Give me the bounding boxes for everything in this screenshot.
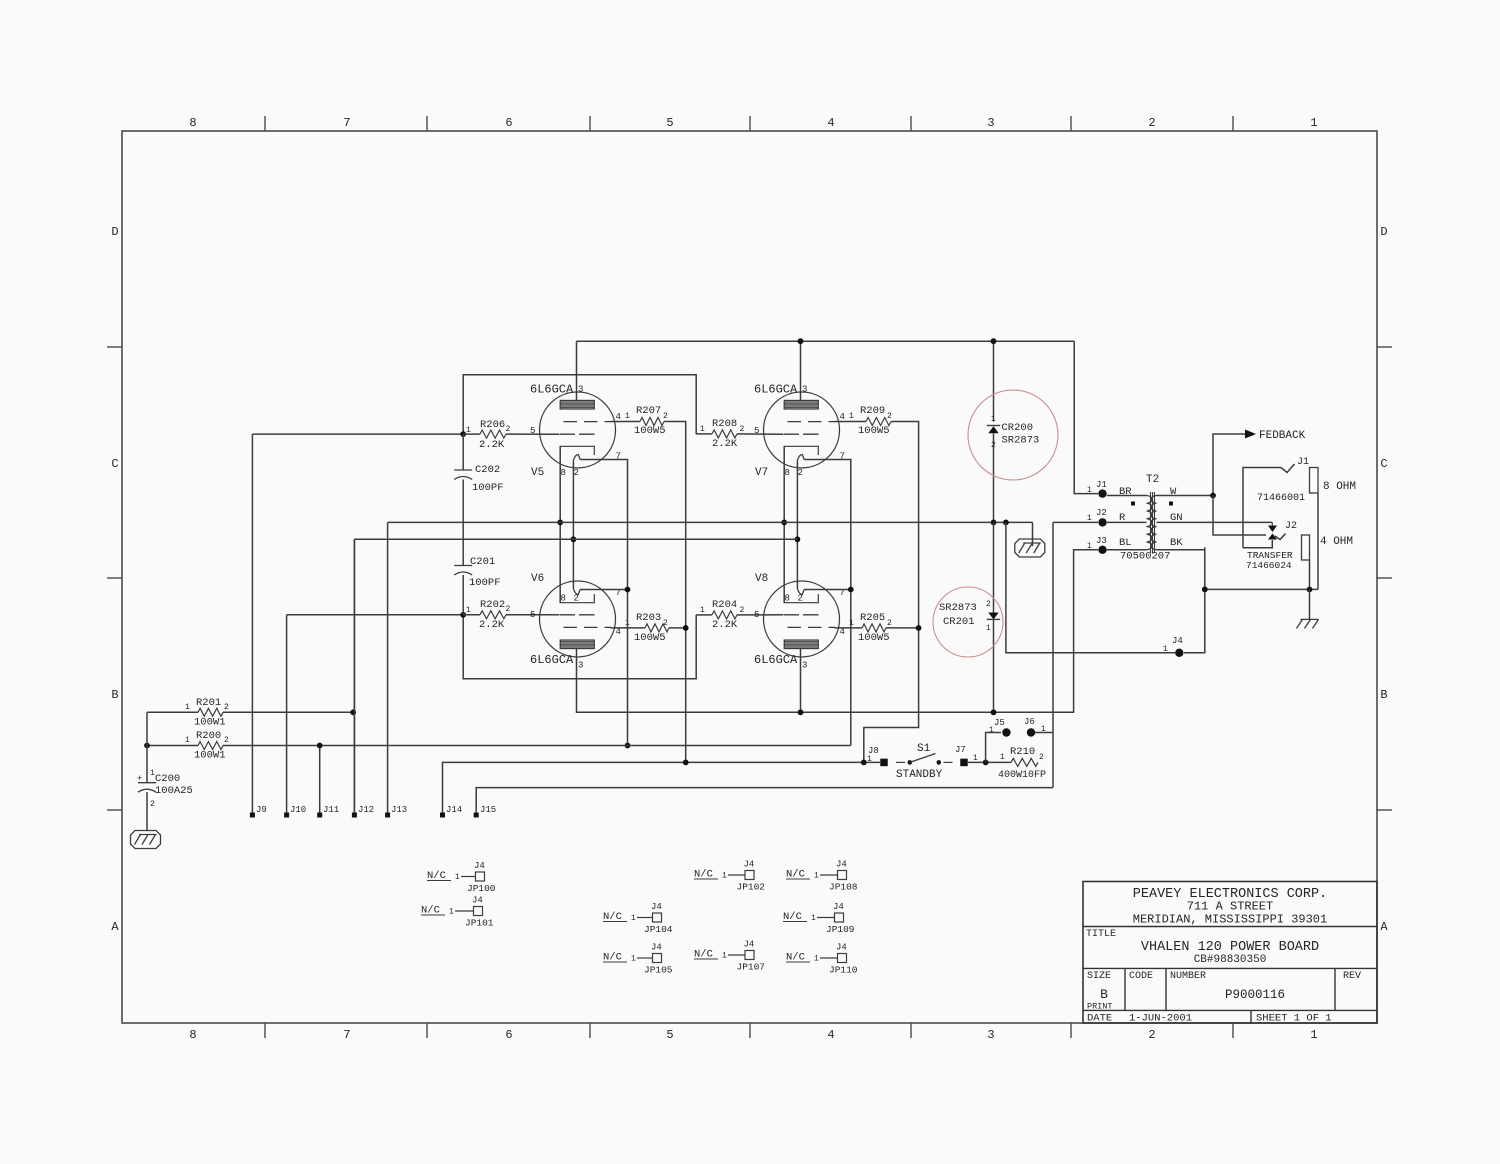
svg-text:1: 1: [814, 872, 819, 881]
connector J1 (T2 primary BR): [1087, 480, 1107, 498]
node J4 branch on bus: [1003, 520, 1009, 526]
tube V7 (6L6GCA): [764, 392, 840, 468]
svg-text:J9: J9: [256, 805, 267, 815]
svg-text:1-JUN-2001: 1-JUN-2001: [1129, 1013, 1192, 1025]
wire V8 pin7 cathode: [804, 589, 851, 591]
resistor R208: [696, 418, 744, 450]
wire J3 to bottom bus: [1074, 550, 1098, 713]
svg-text:J4: J4: [744, 940, 755, 950]
jumper JP101: [421, 896, 494, 929]
switch S1 (STANDBY): [896, 743, 953, 781]
wire V7 pin7 cathode: [804, 460, 851, 746]
svg-text:4: 4: [616, 627, 621, 637]
svg-text:R203: R203: [636, 612, 661, 624]
svg-text:T2: T2: [1146, 474, 1159, 486]
svg-text:2.2K: 2.2K: [712, 619, 738, 631]
red circle CR201: [933, 587, 1003, 657]
node CR201 to bottom bus: [991, 709, 997, 715]
svg-text:C: C: [1380, 457, 1387, 471]
connector J4: [1163, 636, 1184, 657]
node V6 pin7 junction: [625, 587, 631, 593]
svg-text:J1: J1: [1096, 480, 1107, 490]
wire R204 feed (under V6): [463, 615, 696, 679]
connector J5: [989, 718, 1011, 737]
svg-text:4: 4: [840, 412, 845, 422]
wire input to R206 node: [252, 433, 463, 435]
wire V7 plate to bus: [800, 341, 802, 400]
svg-text:SR2873: SR2873: [1002, 435, 1040, 447]
svg-text:R206: R206: [480, 419, 505, 431]
wire J2 corner: [1053, 521, 1098, 523]
svg-text:J2: J2: [1285, 521, 1297, 532]
node V8 pin7 junction: [848, 587, 854, 593]
wire R202 to V6 pin5: [506, 614, 559, 616]
wire R208 feed (over V5): [463, 375, 696, 434]
label V7: [754, 383, 845, 480]
svg-text:5: 5: [530, 426, 535, 436]
node CR200 to bus: [991, 520, 997, 526]
svg-text:GN: GN: [1170, 512, 1183, 524]
svg-text:VHALEN 120 POWER BOARD: VHALEN 120 POWER BOARD: [1141, 940, 1319, 955]
svg-text:J15: J15: [480, 805, 496, 815]
jumper JP104: [603, 902, 673, 935]
svg-text:J4: J4: [472, 896, 483, 906]
svg-text:3: 3: [578, 385, 583, 395]
svg-text:R202: R202: [480, 599, 505, 611]
wire screen bus horizontal: [388, 521, 1033, 523]
node V8 plate junction: [798, 709, 804, 715]
svg-text:100W5: 100W5: [634, 425, 666, 437]
svg-text:D: D: [1380, 225, 1387, 239]
svg-text:A: A: [1380, 920, 1388, 934]
tube V8 (6L6GCA): [764, 581, 840, 657]
svg-text:JP109: JP109: [826, 924, 855, 935]
svg-text:3: 3: [802, 385, 807, 395]
svg-text:SR2873: SR2873: [939, 602, 977, 614]
svg-text:J13: J13: [391, 805, 407, 815]
node cathode to R200 rail: [625, 743, 631, 749]
svg-text:R209: R209: [860, 405, 885, 417]
node feedback junction: [1210, 493, 1216, 499]
capacitor C200 (polarized): [137, 769, 193, 831]
connector J10: [284, 615, 306, 818]
node pin8 bus junction: [557, 520, 563, 526]
wire ground drop: [1032, 522, 1034, 546]
wire BK ground rail: [1205, 588, 1318, 590]
svg-text:J11: J11: [323, 805, 339, 815]
svg-text:R: R: [1119, 512, 1126, 524]
frame tick marks: [107, 116, 1392, 1038]
resistor R203: [611, 612, 670, 644]
svg-text:8: 8: [785, 594, 790, 604]
jumper JP109: [783, 902, 855, 935]
svg-text:DATE: DATE: [1087, 1013, 1112, 1025]
svg-text:R200: R200: [196, 730, 221, 742]
output jack J2 (4 ohm transfer): [1243, 521, 1353, 589]
svg-text:R204: R204: [712, 599, 737, 611]
connector J12: [352, 539, 374, 817]
svg-text:JP104: JP104: [644, 924, 673, 935]
svg-text:CR201: CR201: [943, 616, 975, 628]
svg-text:SHEET 1 OF 1: SHEET 1 OF 1: [1256, 1013, 1332, 1025]
svg-text:1: 1: [185, 736, 190, 745]
capacitor C201: [454, 522, 500, 614]
svg-text:REV: REV: [1343, 971, 1361, 982]
svg-text:8: 8: [189, 116, 196, 130]
frame zone labels: [111, 116, 1388, 1042]
svg-text:4: 4: [827, 116, 834, 130]
wire R207 pin2 drop: [664, 422, 686, 763]
resistor R200: [147, 730, 851, 762]
svg-text:1: 1: [1310, 1028, 1317, 1042]
svg-text:6: 6: [505, 116, 512, 130]
svg-text:1: 1: [1310, 116, 1317, 130]
wire W branch to transfer: [1213, 496, 1266, 536]
svg-text:A: A: [111, 920, 119, 934]
wire BK to J4: [1184, 547, 1205, 653]
svg-text:1: 1: [867, 755, 872, 764]
svg-text:J3: J3: [1096, 536, 1107, 546]
svg-text:J2: J2: [1096, 508, 1107, 518]
jumper JP102: [694, 860, 765, 893]
svg-text:100W5: 100W5: [634, 632, 666, 644]
svg-text:1: 1: [989, 726, 994, 735]
wire R208 to V7 pin5: [737, 433, 783, 435]
svg-text:R205: R205: [860, 612, 885, 624]
wire input to R202 node: [287, 614, 464, 616]
svg-text:1: 1: [986, 624, 991, 633]
node J5 branch junction: [983, 760, 989, 766]
svg-text:3: 3: [987, 1028, 994, 1042]
svg-text:2.2K: 2.2K: [712, 438, 738, 450]
connector J15: [474, 788, 1053, 818]
svg-text:R201: R201: [196, 697, 221, 709]
svg-text:S1: S1: [917, 743, 931, 755]
node pin2 bus end right: [795, 536, 801, 542]
wire R209 pin2 drop: [864, 422, 919, 763]
tube V6 (6L6GCA): [540, 581, 616, 657]
svg-text:1: 1: [814, 955, 819, 964]
svg-text:D: D: [111, 225, 118, 239]
wire W to feedback node: [1213, 434, 1245, 496]
wire V5 pin7 cathode: [580, 460, 627, 746]
resistor R207: [611, 405, 669, 437]
ground (chassis) near bus: [1015, 539, 1045, 557]
svg-text:6L6GCA: 6L6GCA: [530, 383, 574, 397]
wire V6 plate drop: [577, 649, 1075, 713]
svg-text:2: 2: [798, 594, 803, 604]
svg-text:2: 2: [663, 619, 668, 628]
svg-text:100W5: 100W5: [858, 425, 890, 437]
svg-text:BR: BR: [1119, 486, 1132, 498]
wire J5 branch: [986, 733, 1001, 763]
svg-text:JP108: JP108: [829, 882, 858, 893]
svg-text:2: 2: [150, 800, 155, 809]
svg-text:2: 2: [798, 468, 803, 478]
svg-text:400W10FP: 400W10FP: [998, 770, 1046, 781]
node R202 input junction: [460, 612, 466, 618]
wire R204 to V8 pin5: [737, 614, 783, 616]
svg-text:2: 2: [740, 425, 745, 434]
wire R203 pin2 to vertical: [669, 627, 686, 629]
svg-text:C202: C202: [475, 464, 500, 476]
title block: [1083, 882, 1377, 1025]
svg-text:J10: J10: [290, 805, 306, 815]
node pin8 bus junction right: [781, 520, 787, 526]
resistor R204: [696, 599, 744, 631]
wire J4 feed: [1006, 522, 1175, 652]
svg-text:4: 4: [827, 1028, 834, 1042]
resistor R206: [463, 419, 510, 451]
svg-text:2.2K: 2.2K: [479, 619, 505, 631]
output jack J1 (8 ohm): [1243, 457, 1356, 589]
svg-text:PRINT: PRINT: [1087, 1002, 1113, 1012]
svg-text:1: 1: [700, 606, 705, 615]
diode CR201 (SR2873): [939, 522, 1000, 712]
wire R205 pin2 to vertical: [886, 627, 919, 629]
svg-text:J4: J4: [1172, 636, 1183, 646]
svg-text:4 OHM: 4 OHM: [1320, 536, 1353, 548]
jumper JP100: [427, 861, 496, 894]
svg-text:3: 3: [802, 661, 807, 671]
wire V7-V8 pin2 link: [796, 461, 798, 589]
svg-text:1: 1: [466, 606, 471, 615]
node standby wire junction: [683, 760, 689, 766]
wire bus right drop to J1: [1074, 341, 1098, 493]
svg-text:J4: J4: [836, 860, 847, 870]
svg-text:+: +: [137, 774, 142, 784]
svg-text:5: 5: [666, 116, 673, 130]
svg-text:8: 8: [785, 468, 790, 478]
diode CR200 (SR2873): [987, 415, 1040, 522]
jumper JP108: [786, 860, 858, 893]
svg-text:2: 2: [986, 600, 991, 609]
resistor R209: [835, 405, 893, 437]
svg-text:W: W: [1170, 486, 1177, 498]
svg-text:711 A STREET: 711 A STREET: [1187, 900, 1273, 914]
svg-text:J5: J5: [994, 718, 1005, 728]
svg-text:1: 1: [631, 914, 636, 923]
node V7 plate bus junction: [798, 338, 804, 344]
wire V8 plate drop: [800, 649, 802, 713]
svg-text:1: 1: [1000, 753, 1005, 762]
svg-text:100W1: 100W1: [194, 717, 226, 729]
svg-text:2: 2: [887, 412, 892, 421]
svg-text:2: 2: [663, 412, 668, 421]
svg-text:4: 4: [840, 627, 845, 637]
svg-text:8: 8: [561, 468, 566, 478]
svg-text:2: 2: [1148, 116, 1155, 130]
svg-text:V7: V7: [755, 467, 768, 479]
connector J2 (T2 primary R): [1087, 508, 1107, 527]
connector J3 (T2 primary BL): [1087, 536, 1107, 554]
svg-text:V5: V5: [531, 467, 544, 479]
wire R210 pin2 vertical: [1052, 522, 1054, 787]
svg-text:JP101: JP101: [465, 918, 494, 929]
connector J14: [440, 762, 864, 817]
svg-text:70500207: 70500207: [1120, 551, 1170, 563]
label V8: [754, 573, 845, 671]
red circle CR200: [968, 390, 1058, 480]
svg-text:J6: J6: [1024, 717, 1035, 727]
capacitor C202: [454, 434, 503, 522]
tube V5 (6L6GCA): [540, 392, 616, 468]
resistor R202: [463, 599, 510, 631]
svg-text:1: 1: [1087, 486, 1092, 495]
svg-text:71466001: 71466001: [1257, 493, 1305, 504]
wire C200 branch: [146, 712, 148, 779]
resistor R210: [998, 746, 1046, 781]
svg-text:1: 1: [849, 412, 854, 421]
svg-text:CODE: CODE: [1129, 971, 1153, 982]
svg-text:100PF: 100PF: [469, 577, 501, 589]
svg-text:SIZE: SIZE: [1087, 971, 1111, 982]
svg-text:CR200: CR200: [1002, 422, 1034, 434]
svg-text:FEDBACK: FEDBACK: [1259, 430, 1306, 442]
svg-text:R208: R208: [712, 418, 737, 430]
ground output: [1301, 618, 1319, 620]
svg-text:100W5: 100W5: [858, 632, 890, 644]
svg-text:J4: J4: [833, 902, 844, 912]
svg-text:J7: J7: [955, 745, 966, 755]
svg-text:2: 2: [574, 594, 579, 604]
svg-text:1: 1: [625, 412, 630, 421]
svg-text:B: B: [111, 688, 118, 702]
node J8 junction: [861, 760, 867, 766]
svg-text:BK: BK: [1170, 537, 1183, 549]
svg-text:R210: R210: [1010, 746, 1035, 758]
svg-text:2: 2: [1039, 753, 1044, 762]
node R203 junction: [683, 625, 689, 631]
svg-text:4: 4: [616, 412, 621, 422]
svg-text:1: 1: [1087, 514, 1092, 523]
svg-text:J14: J14: [446, 805, 462, 815]
svg-text:J4: J4: [836, 943, 847, 953]
connector J13: [385, 805, 407, 818]
svg-text:1: 1: [185, 703, 190, 712]
svg-text:2: 2: [991, 441, 996, 450]
svg-text:100W1: 100W1: [194, 750, 226, 762]
node R205 junction: [916, 625, 922, 631]
svg-text:V6: V6: [531, 573, 544, 585]
wire screen bus (J2 net): [387, 522, 389, 816]
svg-text:J4: J4: [474, 861, 485, 871]
jumper JP107: [694, 940, 765, 973]
connector J9: [250, 434, 267, 817]
svg-text:1: 1: [631, 955, 636, 964]
node R200 junction: [144, 743, 150, 749]
wire V7-V8 pin8 link: [783, 446, 785, 602]
svg-text:1: 1: [455, 873, 460, 882]
svg-text:2: 2: [224, 736, 229, 745]
svg-text:TITLE: TITLE: [1086, 929, 1116, 940]
svg-text:8: 8: [189, 1028, 196, 1042]
svg-text:STANDBY: STANDBY: [896, 769, 943, 781]
svg-text:6L6GCA: 6L6GCA: [754, 653, 798, 667]
svg-text:J4: J4: [651, 902, 662, 912]
svg-text:JP100: JP100: [467, 883, 496, 894]
node BK rail left: [1202, 587, 1208, 593]
svg-text:JP107: JP107: [737, 962, 766, 973]
jumper JP110: [786, 943, 858, 976]
svg-text:P9000116: P9000116: [1225, 988, 1285, 1002]
node R201 to J12: [350, 709, 356, 715]
connector J7: [955, 745, 978, 766]
svg-text:100PF: 100PF: [472, 482, 504, 494]
svg-text:5: 5: [754, 426, 759, 436]
svg-text:100A25: 100A25: [155, 785, 193, 797]
svg-text:C200: C200: [155, 773, 180, 785]
wire V5-V6 pin2 link: [572, 461, 574, 589]
svg-text:6L6GCA: 6L6GCA: [754, 383, 798, 397]
wire top B+ bus: [577, 340, 1075, 342]
node R206 input junction: [460, 431, 466, 437]
wire to ground: [1309, 589, 1311, 619]
node BK rail right: [1307, 587, 1313, 593]
svg-text:3: 3: [987, 116, 994, 130]
svg-text:1: 1: [466, 426, 471, 435]
svg-text:5: 5: [530, 610, 535, 620]
node pin2 bus junction: [571, 536, 577, 542]
svg-text:B: B: [1100, 987, 1108, 1002]
wire V5 plate to bus: [576, 341, 578, 400]
svg-text:1: 1: [1163, 645, 1168, 654]
svg-text:V8: V8: [755, 573, 768, 585]
resistor R205: [835, 612, 893, 644]
svg-text:2: 2: [224, 703, 229, 712]
svg-text:J1: J1: [1297, 457, 1309, 468]
svg-text:6L6GCA: 6L6GCA: [530, 653, 574, 667]
svg-text:1: 1: [811, 914, 816, 923]
wire R206 to V5 pin5: [506, 433, 559, 435]
ground (chassis) C200: [131, 831, 161, 849]
svg-text:3: 3: [578, 661, 583, 671]
wire CR200 branch top: [993, 341, 995, 421]
svg-text:NUMBER: NUMBER: [1170, 971, 1206, 982]
svg-text:7: 7: [343, 1028, 350, 1042]
svg-text:6: 6: [505, 1028, 512, 1042]
jumper JP105: [603, 943, 673, 976]
svg-text:2: 2: [740, 606, 745, 615]
transformer T2: [1107, 474, 1273, 563]
svg-text:C: C: [111, 457, 118, 471]
svg-text:1: 1: [700, 425, 705, 434]
svg-text:R207: R207: [636, 405, 661, 417]
svg-text:BL: BL: [1119, 537, 1132, 549]
border frame: [122, 131, 1377, 1023]
svg-text:B: B: [1380, 688, 1387, 702]
wire grid bus horizontal: [354, 538, 797, 540]
svg-text:7: 7: [343, 116, 350, 130]
svg-text:J4: J4: [651, 943, 662, 953]
svg-text:2: 2: [887, 619, 892, 628]
label V6: [530, 573, 621, 671]
feedback arrow: [1245, 430, 1256, 439]
svg-text:JP110: JP110: [829, 965, 858, 976]
svg-text:2: 2: [1148, 1028, 1155, 1042]
svg-text:1: 1: [991, 415, 996, 424]
node J11 junction: [317, 743, 323, 749]
svg-text:2: 2: [574, 468, 579, 478]
svg-text:2: 2: [506, 425, 511, 434]
svg-text:2: 2: [506, 605, 511, 614]
svg-text:MERIDIAN, MISSISSIPPI 39301: MERIDIAN, MISSISSIPPI 39301: [1133, 913, 1327, 927]
node CR200 bus junction: [991, 338, 997, 344]
wire V6 pin7 cathode: [580, 589, 627, 591]
wire grid bus (J12 net): [353, 539, 355, 816]
svg-text:5: 5: [666, 1028, 673, 1042]
svg-text:JP105: JP105: [644, 965, 673, 976]
